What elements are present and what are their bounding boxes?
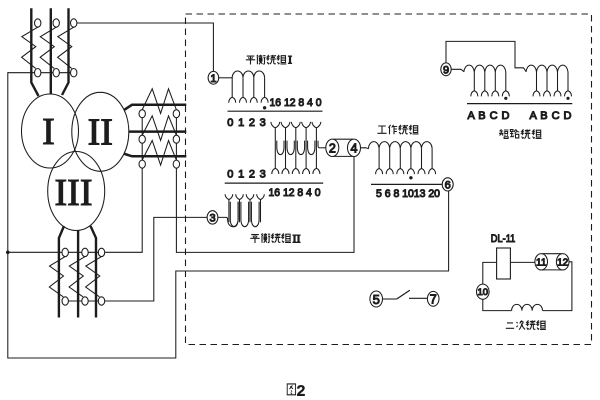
label 平衡绕组 II: [250, 233, 291, 243]
CT2 terminal circles: [139, 110, 180, 168]
wire node 9 to short-circuit winding a: [451, 69, 464, 71]
svg-text:III: III: [55, 172, 93, 214]
svg-text:II: II: [88, 112, 113, 154]
node 3: [207, 211, 218, 224]
node 2: [326, 139, 339, 156]
svg-text:2: 2: [329, 141, 336, 155]
svg-text:9: 9: [443, 64, 449, 76]
short-circuit winding b tap leads: [537, 72, 569, 91]
wire node 3 into winding II: [218, 202, 238, 227]
junction dot on left riser: [6, 251, 10, 255]
svg-text:0 1 2 3: 0 1 2 3: [227, 168, 265, 180]
CT secondary zigzag phase A top: [22, 27, 38, 68]
balance winding II U-turn arcs: [230, 202, 259, 227]
wire: common return net (node6 - bottom loop - left riser - CT1 secondaries): [8, 73, 449, 358]
switch blade: [397, 290, 410, 299]
CT2 zigzag row 1: [142, 89, 176, 114]
label 平衡绕组 I: [246, 55, 286, 65]
svg-text:5: 5: [373, 292, 380, 307]
CT2 zigzag row 2: [142, 116, 176, 141]
working winding coil: [369, 142, 433, 149]
wire node 10 to secondary winding: [483, 299, 512, 310]
phase lead B top: [50, 8, 52, 94]
middle winding outlet stub: [318, 141, 320, 148]
node 12: [556, 254, 569, 270]
CT2 zigzag row 3: [142, 141, 176, 166]
secondary winding coil: [512, 304, 543, 310]
svg-text:3: 3: [209, 213, 215, 225]
CT secondary zigzag phase B top: [40, 27, 56, 68]
label 工作绕组: [377, 125, 418, 135]
phase lead A top: [31, 8, 38, 96]
balance winding I tap leads: [232, 78, 264, 97]
svg-text:I: I: [288, 53, 292, 67]
node 6: [442, 178, 453, 191]
node 5: [370, 291, 383, 307]
svg-text:12: 12: [557, 257, 569, 268]
svg-text:A B C D: A B C D: [530, 110, 572, 122]
transformer winding circle I: [22, 94, 79, 168]
working winding tap forks: [376, 169, 383, 175]
svg-text:2: 2: [297, 382, 305, 399]
bridge wire over short-circuit windings: [446, 41, 526, 71]
switch wire from node 5: [383, 298, 397, 300]
phase lead B bottom: [77, 230, 79, 318]
CT secondary zigzag phase C bottom: [86, 257, 102, 297]
middle tapped winding top forks and leads: [271, 122, 321, 168]
link bars between node 11 and node 12: [542, 254, 561, 270]
selected tap dot winding I: [263, 106, 266, 109]
svg-text:6: 6: [445, 180, 451, 192]
CT secondary zigzag phase A bottom: [49, 257, 65, 297]
selected tap dot winding a: [504, 97, 507, 100]
svg-text:1: 1: [210, 73, 216, 85]
tap plate lower line: [225, 182, 324, 184]
CT1 terminal circles top row: [35, 19, 77, 27]
node 10: [477, 284, 490, 299]
transformer winding circle III: [48, 152, 105, 231]
phase lead 3 to winding II: [124, 154, 186, 157]
link bars between node 2 and node 4: [334, 139, 353, 156]
node 4: [348, 139, 361, 156]
svg-text:11: 11: [536, 257, 547, 268]
balance winding II tap forks and leads: [225, 194, 264, 199]
relay DL-11 box: [497, 248, 511, 279]
node 11: [535, 254, 548, 270]
phase lead C bottom: [91, 226, 97, 318]
phase lead 2 to winding II: [129, 130, 187, 133]
short-circuit winding a tap forks: [471, 91, 478, 97]
wire relay to node 11: [510, 261, 535, 263]
caption 图2: [287, 384, 295, 395]
svg-text:I: I: [42, 111, 55, 153]
tap plate upper line: [228, 110, 323, 112]
balance winding I coil: [232, 71, 264, 78]
working winding tap plate line: [371, 183, 442, 185]
balance winding I tap forks: [229, 97, 236, 103]
CT3 terminal circles bottom row: [62, 297, 105, 305]
svg-text:II: II: [293, 232, 301, 246]
svg-text:DL-11: DL-11: [491, 233, 516, 245]
svg-text:16 12 8 4 0: 16 12 8 4 0: [270, 97, 322, 109]
wire node1 to balance winding I: [219, 77, 233, 79]
label 二次绕组: [506, 320, 546, 329]
svg-text:16 12 8 4 0: 16 12 8 4 0: [269, 187, 321, 199]
wire relay to node 10: [483, 262, 497, 284]
svg-text:4: 4: [351, 141, 358, 155]
node 1: [208, 71, 219, 84]
node 7: [427, 291, 439, 306]
wire secondary winding to node 12: [543, 262, 572, 311]
phase lead A bottom: [59, 226, 64, 318]
transformer winding circle II: [72, 92, 129, 171]
short-circuit winding a coil: [464, 65, 506, 72]
svg-text:10: 10: [478, 287, 489, 298]
node 9: [441, 63, 451, 76]
wire middle winding to node 2: [320, 147, 326, 149]
middle winding lower tap forks: [272, 168, 279, 174]
wire: CT2 right terminals down, across, up to node 4: [176, 114, 354, 253]
svg-text:5 6 8 1013 20: 5 6 8 1013 20: [376, 188, 440, 200]
label 短路绕组: [499, 129, 542, 138]
svg-text:A B C D: A B C D: [468, 110, 510, 122]
wire: CT3 bottom terminals to node 3: [65, 217, 207, 301]
svg-text:7: 7: [430, 292, 437, 306]
short-circuit winding b tap forks: [533, 91, 540, 97]
selected tap dot working winding: [409, 176, 412, 179]
wire: CT3 top terminals row to CT2 left terminals riser: [8, 114, 142, 253]
short-circuit winding tap plate line: [467, 103, 572, 105]
CT secondary zigzag phase C top: [58, 27, 74, 68]
switch wire to node 7: [409, 297, 427, 299]
svg-text:0 1 2 3: 0 1 2 3: [227, 117, 265, 129]
wire node 4 to working winding: [361, 148, 369, 149]
working winding tap leads: [379, 149, 432, 169]
phase lead C top: [62, 8, 69, 95]
dashed relay enclosure box: [186, 14, 592, 345]
short-circuit winding a tap leads: [474, 72, 506, 91]
CT3 terminal circles top row: [62, 248, 105, 256]
short-circuit winding b coil: [526, 65, 568, 72]
selected tap dot winding b: [566, 97, 569, 100]
middle winding U-turn arcs: [277, 141, 315, 155]
CT1 terminal circles bottom row: [35, 69, 77, 77]
phase lead 1 to winding II: [124, 105, 186, 110]
CT secondary zigzag phase B bottom: [69, 257, 85, 297]
wire: CT1 top terminal to node 1: [77, 23, 214, 71]
